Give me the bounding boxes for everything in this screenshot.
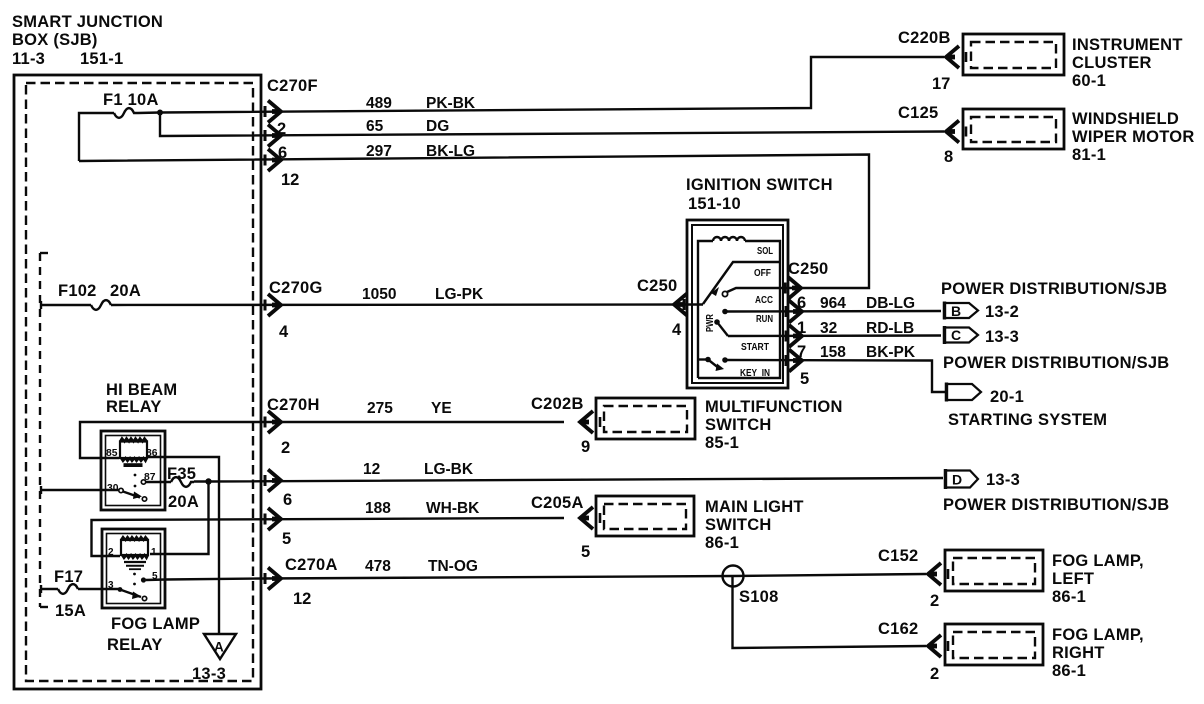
hi beam relay switch 30-87	[119, 480, 147, 501]
svg-text:MAIN LIGHT: MAIN LIGHT	[705, 498, 804, 516]
svg-text:20A: 20A	[110, 282, 141, 300]
connector C270F arrow pin 2	[265, 125, 281, 147]
ignition switch OFF contact arm	[703, 262, 780, 304]
svg-text:C: C	[951, 327, 961, 343]
svg-text:FOG LAMP: FOG LAMP	[111, 615, 200, 633]
svg-text:158: 158	[820, 344, 846, 361]
splice S108	[723, 566, 779, 607]
svg-text:1: 1	[797, 319, 806, 337]
svg-text:OFF: OFF	[754, 268, 771, 279]
svg-text:C205A: C205A	[531, 494, 584, 512]
wire 65 DG to windshield wiper motor	[160, 113, 944, 137]
svg-text:RELAY: RELAY	[106, 398, 162, 416]
svg-text:CLUSTER: CLUSTER	[1072, 54, 1152, 72]
connector C162	[878, 620, 948, 683]
svg-text:LG-PK: LG-PK	[435, 286, 484, 303]
fog lamp relay box	[102, 529, 165, 608]
C250 arrow SOL row	[785, 277, 801, 299]
svg-text:6: 6	[797, 294, 806, 312]
wire 32 RD-LB start row	[728, 319, 941, 347]
svg-text:SWITCH: SWITCH	[705, 516, 772, 534]
svg-text:6: 6	[283, 491, 292, 509]
svg-text:30: 30	[107, 483, 119, 494]
svg-text:C220B: C220B	[898, 29, 951, 47]
wire F17 to fog relay 3	[41, 584, 120, 594]
SJB inner dashed box	[26, 83, 253, 681]
pentagon 20-1 starting system	[946, 383, 1024, 407]
connector C270A	[265, 556, 338, 608]
connector C152	[878, 547, 948, 610]
ignition switch outer box	[687, 220, 788, 388]
svg-text:15A: 15A	[55, 602, 86, 620]
svg-text:C125: C125	[898, 104, 938, 122]
svg-text:BOX (SJB): BOX (SJB)	[12, 31, 98, 49]
svg-text:2: 2	[281, 439, 290, 457]
svg-text:12: 12	[281, 171, 299, 189]
svg-text:POWER DISTRIBUTION/SJB: POWER DISTRIBUTION/SJB	[943, 496, 1169, 514]
svg-text:11-3: 11-3	[12, 50, 45, 68]
svg-text:151-10: 151-10	[688, 195, 741, 213]
svg-text:5: 5	[581, 543, 590, 561]
hi beam relay actuator dots	[134, 474, 137, 488]
SJB outer solid box	[14, 75, 261, 689]
ignition switch position labels	[740, 246, 773, 379]
svg-text:START: START	[741, 342, 769, 353]
svg-text:WIPER MOTOR: WIPER MOTOR	[1072, 128, 1195, 146]
svg-text:151-1: 151-1	[80, 50, 123, 68]
svg-text:17: 17	[932, 75, 950, 93]
svg-text:B: B	[951, 303, 961, 319]
svg-text:KEY_IN: KEY_IN	[740, 368, 770, 379]
wire labels 478 TN-OG	[365, 558, 478, 575]
svg-text:13-3: 13-3	[985, 328, 1019, 346]
svg-text:C250: C250	[788, 260, 828, 278]
svg-text:275: 275	[367, 400, 393, 417]
svg-text:2: 2	[108, 547, 114, 558]
svg-text:D: D	[952, 472, 962, 488]
svg-text:WINDSHIELD: WINDSHIELD	[1072, 110, 1179, 128]
svg-text:FOG LAMP,: FOG LAMP,	[1052, 552, 1144, 570]
svg-text:86-1: 86-1	[1052, 588, 1086, 606]
svg-text:7: 7	[797, 343, 806, 361]
svg-text:C270H: C270H	[267, 396, 320, 414]
svg-text:IGNITION SWITCH: IGNITION SWITCH	[686, 176, 833, 194]
pentagon B power distribution	[944, 302, 1019, 322]
fog lamp relay title	[107, 615, 200, 654]
svg-text:12: 12	[363, 461, 380, 478]
svg-text:1: 1	[151, 547, 157, 558]
connector C125 arrow	[898, 104, 966, 166]
svg-text:RIGHT: RIGHT	[1052, 644, 1105, 662]
svg-text:SMART JUNCTION: SMART JUNCTION	[12, 13, 163, 31]
fuse F35	[171, 477, 194, 487]
fog lamp right label	[1052, 626, 1144, 680]
svg-text:12: 12	[293, 590, 311, 608]
C270F pin numbers	[277, 120, 299, 189]
svg-text:32: 32	[820, 320, 837, 337]
svg-text:1050: 1050	[362, 286, 396, 303]
fog lamp left label	[1052, 552, 1144, 606]
wire 87 through F35 to C270H6 and fog relay 1	[146, 477, 944, 554]
main light switch label	[705, 498, 804, 552]
connector C220B arrow	[898, 29, 966, 93]
svg-text:POWER DISTRIBUTION/SJB: POWER DISTRIBUTION/SJB	[941, 280, 1167, 298]
svg-text:C162: C162	[878, 620, 918, 638]
svg-text:2: 2	[277, 120, 286, 138]
svg-text:SOL: SOL	[757, 246, 773, 257]
svg-text:297: 297	[366, 143, 392, 160]
svg-text:85-1: 85-1	[705, 434, 739, 452]
pentagon C power distribution	[944, 326, 1019, 346]
connector C250 left	[637, 277, 687, 339]
connector C202B	[531, 395, 600, 456]
svg-text:5: 5	[282, 530, 291, 548]
hi beam relay title	[106, 381, 177, 416]
connector C205A	[531, 494, 600, 561]
ignition switch RUN contact	[722, 309, 728, 315]
fuse F102	[91, 300, 111, 310]
connector C270G	[265, 279, 323, 341]
svg-text:RUN: RUN	[756, 314, 773, 325]
svg-text:RELAY: RELAY	[107, 636, 163, 654]
svg-text:188: 188	[365, 500, 391, 517]
fuse F35 label	[167, 465, 199, 511]
svg-text:6: 6	[278, 144, 287, 162]
svg-text:2: 2	[930, 592, 939, 610]
hi beam relay box	[101, 431, 165, 510]
svg-text:964: 964	[820, 295, 846, 312]
svg-text:13-2: 13-2	[985, 303, 1019, 321]
svg-text:8: 8	[944, 148, 953, 166]
svg-text:20A: 20A	[168, 493, 199, 511]
wire labels 489 PK-BK	[366, 95, 476, 112]
fuse F17	[58, 584, 78, 594]
instrument cluster box	[963, 34, 1064, 75]
fog lamp left box	[945, 550, 1043, 591]
junction node on wire 489	[157, 110, 163, 116]
wire 489 PK-BK from F1 to instrument cluster	[79, 57, 944, 161]
SJB internal dashed connector rail	[40, 253, 50, 607]
wire labels 12 LG-BK	[363, 461, 474, 478]
svg-text:A: A	[214, 640, 224, 655]
hi beam relay pin labels	[106, 448, 158, 494]
svg-text:BK-PK: BK-PK	[866, 344, 916, 361]
svg-text:PK-BK: PK-BK	[426, 95, 476, 112]
wire C270H2 to relay coil 85	[80, 422, 564, 458]
connector C270F arrow pin (wire 489)	[265, 101, 281, 123]
ignition switch body outline with coil	[698, 237, 780, 378]
connector C270H	[265, 396, 320, 548]
connector C270F arrow pin 6	[265, 149, 281, 171]
svg-text:S108: S108	[739, 588, 779, 606]
ignition switch ACC contact	[722, 288, 803, 297]
wire 964 DB-LG run row	[725, 294, 941, 323]
svg-text:C270A: C270A	[285, 556, 338, 574]
wire labels 1050 LG-PK	[362, 286, 484, 303]
fuse F17 label	[54, 568, 86, 620]
ignition switch title	[686, 176, 833, 213]
fog lamp relay switch 3-5	[118, 577, 147, 600]
fuse F1	[114, 108, 138, 118]
hi beam relay coil	[120, 438, 147, 467]
svg-text:65: 65	[366, 118, 384, 135]
svg-text:20-1: 20-1	[990, 388, 1024, 406]
svg-text:13-3: 13-3	[192, 665, 226, 683]
svg-text:LG-BK: LG-BK	[424, 461, 474, 478]
svg-text:81-1: 81-1	[1072, 146, 1106, 164]
ground triangle A	[192, 634, 236, 683]
svg-text:WH-BK: WH-BK	[426, 500, 480, 517]
svg-text:C250: C250	[637, 277, 677, 295]
svg-text:FOG LAMP,: FOG LAMP,	[1052, 626, 1144, 644]
instrument cluster label	[1072, 36, 1183, 90]
svg-text:SWITCH: SWITCH	[705, 416, 772, 434]
svg-text:C270F: C270F	[267, 77, 318, 95]
ignition switch START contact	[714, 319, 728, 336]
svg-text:LEFT: LEFT	[1052, 570, 1094, 588]
svg-text:BK-LG: BK-LG	[426, 143, 475, 160]
svg-text:STARTING SYSTEM: STARTING SYSTEM	[948, 411, 1107, 429]
wire 1050 LG-PK from F102 to ignition	[41, 300, 703, 310]
fog lamp relay pin labels	[108, 547, 158, 591]
svg-text:ACC: ACC	[755, 295, 773, 306]
wire 478 TN-OG from fog relay 5 to fog lamps	[146, 574, 926, 580]
fog lamp relay coil	[121, 537, 148, 569]
multifunction switch label	[705, 398, 843, 452]
svg-text:2: 2	[930, 665, 939, 683]
wire labels 297 BK-LG	[366, 143, 475, 160]
fog lamp relay actuator dots	[133, 573, 136, 586]
wire 188 WH-BK from fog relay 2	[92, 518, 565, 556]
svg-text:86-1: 86-1	[1052, 662, 1086, 680]
wire 297 BK-LG to ignition switch SOL	[79, 155, 869, 289]
wire 158 BK-PK keyin row	[725, 343, 945, 392]
svg-text:HI BEAM: HI BEAM	[106, 381, 177, 399]
svg-text:489: 489	[366, 95, 392, 112]
svg-text:13-3: 13-3	[986, 471, 1020, 489]
windshield wiper motor box	[963, 109, 1064, 149]
wire 30 to internal rail	[41, 486, 119, 494]
svg-text:86-1: 86-1	[705, 534, 739, 552]
svg-text:C270G: C270G	[269, 279, 323, 297]
svg-text:C202B: C202B	[531, 395, 584, 413]
svg-text:4: 4	[672, 321, 682, 339]
svg-text:MULTIFUNCTION: MULTIFUNCTION	[705, 398, 843, 416]
multifunction switch box	[596, 398, 695, 439]
wire labels 188 WH-BK	[365, 500, 480, 517]
wire relay 86 to ground	[148, 457, 220, 634]
ignition switch KEY_IN contact	[698, 357, 728, 371]
fuse F102 label	[58, 282, 141, 300]
pentagon D power distribution	[945, 469, 1020, 489]
svg-text:F1 10A: F1 10A	[103, 91, 159, 109]
svg-text:F102: F102	[58, 282, 97, 300]
svg-text:DG: DG	[426, 118, 449, 135]
svg-text:C152: C152	[878, 547, 918, 565]
svg-text:5: 5	[800, 370, 809, 388]
svg-text:DB-LG: DB-LG	[866, 295, 915, 312]
svg-text:YE: YE	[431, 400, 452, 417]
fog lamp right box	[945, 624, 1043, 665]
svg-text:F17: F17	[54, 568, 83, 586]
windshield wiper motor label	[1072, 110, 1195, 164]
svg-text:4: 4	[279, 323, 289, 341]
svg-text:INSTRUMENT: INSTRUMENT	[1072, 36, 1183, 54]
smart junction box SJB title	[12, 13, 163, 68]
svg-text:F35: F35	[167, 465, 196, 483]
svg-text:60-1: 60-1	[1072, 72, 1106, 90]
wire labels 65 DG	[366, 118, 449, 135]
svg-text:POWER DISTRIBUTION/SJB: POWER DISTRIBUTION/SJB	[943, 354, 1169, 372]
svg-text:TN-OG: TN-OG	[428, 558, 478, 575]
svg-text:RD-LB: RD-LB	[866, 320, 914, 337]
wire S108 to fog lamp right	[733, 576, 927, 648]
main light switch box	[596, 496, 694, 536]
svg-text:9: 9	[581, 438, 590, 456]
wire labels 275 YE	[367, 400, 452, 417]
svg-text:478: 478	[365, 558, 391, 575]
